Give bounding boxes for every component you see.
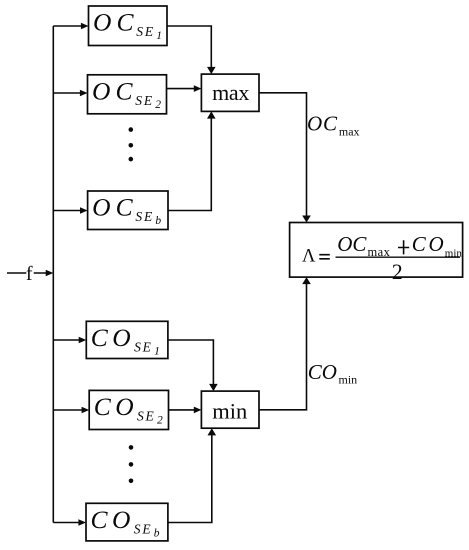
svg-text:max: max: [339, 125, 360, 139]
svg-text:f: f: [26, 263, 33, 285]
svg-text:2: 2: [392, 259, 403, 284]
svg-text:max: max: [368, 245, 391, 259]
svg-text:CO: CO: [308, 360, 337, 384]
svg-text:CO: CO: [412, 232, 447, 256]
svg-text:OC: OC: [337, 232, 367, 256]
svg-text:min: min: [445, 247, 463, 259]
svg-text:OC: OC: [307, 112, 338, 136]
svg-text:min: min: [339, 372, 358, 386]
svg-text:min: min: [212, 398, 247, 423]
svg-text:Λ: Λ: [302, 247, 316, 267]
svg-text:max: max: [212, 80, 249, 105]
